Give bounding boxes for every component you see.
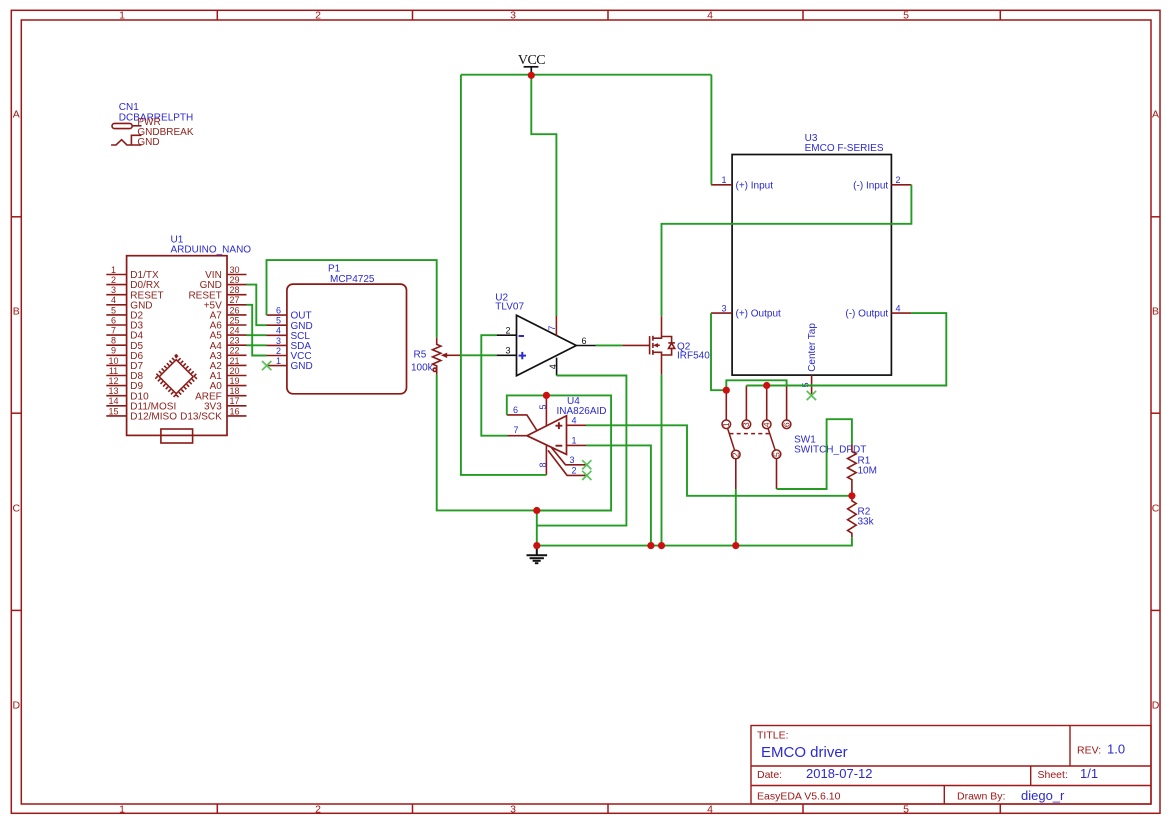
svg-text:10M: 10M [858,466,877,477]
svg-text:29: 29 [229,275,239,285]
svg-text:5: 5 [538,404,548,409]
svg-text:1: 1 [276,356,281,366]
svg-text:D13/SCK: D13/SCK [180,412,222,423]
svg-text:6: 6 [513,405,518,415]
svg-text:B: B [13,306,20,318]
wire U4 pins 5-6 loop to ground [507,395,611,510]
svg-text:MCP4725: MCP4725 [330,274,375,285]
svg-text:9: 9 [111,346,116,356]
svg-text:C: C [13,503,21,515]
junction [848,492,855,499]
svg-text:28: 28 [229,285,239,295]
svg-text:3: 3 [510,803,516,815]
wire R5 wiper to U2 pin 3 [462,354,497,356]
svg-text:REV:: REV: [1077,745,1101,757]
svg-text:3: 3 [741,422,751,427]
wire U1 GND to P1 GND [247,285,267,326]
component U1 ARDUINO_NANO [106,234,251,443]
svg-text:6: 6 [276,306,281,316]
svg-text:A: A [1152,109,1159,121]
wire U2 pin 4 to ground stem [537,376,627,526]
svg-text:3: 3 [505,346,510,356]
svg-text:30: 30 [229,265,239,275]
svg-text:Center Tap: Center Tap [807,323,818,372]
wire Q2 source to ground bus [661,375,663,546]
svg-text:14: 14 [108,396,118,406]
svg-text:D12/MISO: D12/MISO [130,412,177,423]
op-amp U2 TLV07 [495,293,595,376]
wire U2 pin 2 to U4 pin 7 [481,335,507,436]
svg-text:D: D [13,700,21,712]
wire U1 A5 to P1 SCL [247,334,267,336]
svg-text:3: 3 [510,10,516,22]
junction [543,392,550,399]
junction [763,382,770,389]
svg-text:3: 3 [111,285,116,295]
svg-text:7: 7 [111,326,116,336]
wire U1 +5V to P1 VCC [247,305,267,356]
svg-text:GND: GND [291,361,313,372]
svg-text:2: 2 [276,346,281,356]
svg-text:1.0: 1.0 [1107,742,1125,757]
svg-text:26: 26 [229,305,239,315]
svg-text:5: 5 [771,452,781,457]
svg-text:6: 6 [111,315,116,325]
svg-text:diego_r: diego_r [1021,788,1065,803]
wire VCC rail [461,74,712,76]
svg-text:EMCO driver: EMCO driver [761,744,848,761]
junction [647,542,654,549]
svg-text:(+) Input: (+) Input [736,180,774,191]
wire SW1 pole riser [726,380,786,390]
svg-text:CN1: CN1 [119,102,139,113]
junction [658,542,665,549]
svg-text:5: 5 [903,803,909,815]
switch SW1 SWITCH_DPDT [721,386,866,490]
svg-text:23: 23 [229,336,239,346]
svg-text:3: 3 [570,455,575,465]
svg-text:11: 11 [109,366,118,376]
junction [533,507,540,514]
resistor R1 10M [848,445,877,496]
svg-text:4: 4 [111,295,116,305]
svg-text:(-) Output: (-) Output [845,309,888,320]
svg-text:3: 3 [721,303,726,313]
svg-text:1: 1 [111,265,116,275]
svg-text:1: 1 [119,10,125,22]
junction [732,542,739,549]
svg-text:4: 4 [707,10,713,22]
wire U3 pin 4 to SW1 throws [746,313,946,385]
wire ground stem [536,511,538,546]
svg-text:1: 1 [721,175,726,185]
svg-text:4: 4 [572,416,577,426]
svg-text:R5: R5 [414,350,427,361]
svg-text:13: 13 [108,386,118,396]
wire U4 pin 4 to R1/R2 divider [586,425,852,496]
svg-text:19: 19 [229,376,239,386]
wire SW1 pin 2 to ground bus [735,489,737,545]
svg-text:5: 5 [903,10,909,22]
svg-text:33k: 33k [858,517,875,528]
wire SW1 pin 5 to R1 top [777,419,852,489]
svg-text:25: 25 [229,315,239,325]
svg-text:15: 15 [108,406,118,416]
transistor Q2 IRF540 [622,316,710,374]
svg-text:(+) Output: (+) Output [736,309,782,320]
svg-text:7: 7 [547,326,557,331]
svg-text:Date:: Date: [757,769,782,781]
svg-text:4: 4 [896,303,901,313]
svg-text:GND: GND [137,137,159,148]
wire U3 pin 2 to Q2 drain [662,185,912,316]
svg-text:12: 12 [108,376,118,386]
component P1 MCP4725 [267,264,407,394]
svg-text:1: 1 [721,422,731,427]
junction [533,542,540,549]
svg-text:4: 4 [762,422,772,427]
wire R5 bottom to ground net [437,375,537,511]
svg-text:22: 22 [229,346,239,356]
wire U1 A4 to P1 SDA [247,344,267,346]
svg-text:B: B [1152,306,1159,318]
svg-text:20: 20 [229,366,239,376]
svg-text:2: 2 [731,452,741,457]
svg-text:4: 4 [548,364,558,369]
connector CN1 DCBARRELPTH [119,102,194,148]
wire U2 out to Q2 gate [596,344,623,346]
svg-text:17: 17 [229,396,239,406]
svg-text:(-) Input: (-) Input [853,180,888,191]
no-connect X on P1 pin 1 GND [262,361,271,370]
ground [527,546,548,564]
wire P1 OUT to R5 top [267,260,437,338]
svg-text:1/1: 1/1 [1080,766,1098,781]
wire U4 pin 1 to ground bus [586,445,651,545]
no-connect X on U4 pin 3 [582,460,591,469]
svg-text:Drawn By:: Drawn By: [957,791,1005,803]
svg-text:8: 8 [111,336,116,346]
svg-text:ARDUINO_NANO: ARDUINO_NANO [171,245,252,256]
svg-text:3: 3 [276,336,281,346]
svg-text:VCC: VCC [518,53,545,68]
svg-text:5: 5 [276,316,281,326]
svg-text:2: 2 [315,803,321,815]
wire VCC to U4 pin 8 [461,75,547,475]
junction [528,72,535,79]
svg-text:27: 27 [229,295,239,305]
svg-text:2: 2 [896,175,901,185]
wire ground bus [537,537,852,545]
svg-text:10: 10 [108,356,118,366]
svg-text:6: 6 [781,422,791,427]
svg-text:TLV07: TLV07 [495,302,524,313]
svg-text:C: C [1152,503,1160,515]
title block [751,726,1151,805]
svg-text:21: 21 [229,356,239,366]
component U3 EMCO F-SERIES [711,133,911,394]
wire U3 pin 3 to SW1 pole [711,313,726,390]
svg-text:8: 8 [538,462,548,467]
svg-text:7: 7 [514,425,519,435]
svg-text:4: 4 [707,803,713,815]
svg-text:EasyEDA V5.6.10: EasyEDA V5.6.10 [757,791,841,803]
resistor R5 100k (potentiometer) [411,338,462,375]
power symbol VCC [518,53,545,76]
svg-text:U1: U1 [171,234,184,245]
no-connect X on U3 pin 5 Center Tap [807,391,816,400]
svg-text:6: 6 [582,336,587,346]
resistor R2 33k [848,496,875,537]
svg-text:IRF540: IRF540 [677,351,710,362]
svg-text:D: D [1152,700,1160,712]
wire VCC to U3 pin 1 [710,75,712,185]
svg-text:16: 16 [229,406,239,416]
svg-text:A: A [13,109,20,121]
svg-text:18: 18 [229,386,239,396]
svg-text:2018-07-12: 2018-07-12 [806,766,873,781]
svg-text:1: 1 [119,803,125,815]
svg-text:24: 24 [229,326,239,336]
svg-text:5: 5 [111,305,116,315]
svg-text:1: 1 [572,436,577,446]
svg-text:TITLE:: TITLE: [757,730,789,742]
svg-text:2: 2 [315,10,321,22]
svg-text:2: 2 [111,275,116,285]
svg-text:2: 2 [572,466,577,476]
svg-text:Sheet:: Sheet: [1038,769,1068,781]
op-amp U4 INA826AID [507,395,607,475]
no-connect X on U4 pin 2 [582,471,591,480]
wire VCC to U2 pin 7 [531,75,556,316]
svg-text:INA826AID: INA826AID [557,406,607,417]
svg-text:4: 4 [276,326,281,336]
svg-text:2: 2 [505,325,510,335]
svg-text:100k: 100k [411,363,434,374]
junction [723,387,730,394]
svg-text:EMCO F-SERIES: EMCO F-SERIES [805,143,884,154]
